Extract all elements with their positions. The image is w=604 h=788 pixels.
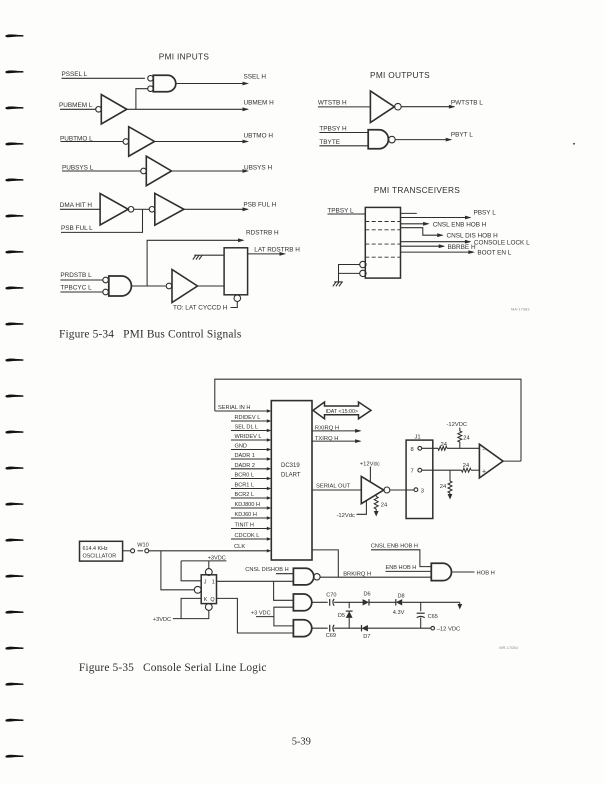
J1 pin 7 circle	[418, 468, 422, 472]
wire RDSTRB H	[147, 240, 243, 286]
diode D6	[363, 599, 369, 605]
capacitor C70	[329, 599, 331, 606]
svg-text:PWTSTB L: PWTSTB L	[451, 99, 483, 106]
wire preset to +3VDC	[208, 561, 210, 569]
wire clear to +3VDC rail	[181, 610, 209, 618]
svg-text:UBTMO H: UBTMO H	[244, 133, 274, 140]
supply arrow end of rail	[459, 602, 461, 604]
wire stub top right	[401, 212, 417, 214]
inverter U5 output bubble	[128, 207, 134, 213]
resistor 24 to ground	[448, 481, 452, 493]
wire CNSL ENB HOB H	[401, 223, 429, 225]
svg-text:24: 24	[463, 463, 470, 469]
wire Q output to bottom gate	[217, 598, 294, 633]
transceiver section dashed dividers	[365, 221, 400, 223]
wire U16 bottom input from +3 VDC	[274, 607, 294, 626]
inverter input bubble	[141, 168, 147, 174]
svg-text:CDCOK L: CDCOK L	[235, 533, 260, 539]
oscillator Y1 box	[80, 541, 123, 561]
and-gate U15 (HOB)	[431, 563, 451, 580]
and-gate U17 (bottom)	[293, 620, 311, 637]
wire CNSL DIS HOB H	[401, 228, 443, 236]
inverter U9 (PWTSTB)	[370, 91, 394, 123]
svg-text:BOOT EN L: BOOT EN L	[477, 250, 511, 257]
nand output bubble	[314, 574, 320, 580]
wire PUBTMO L	[61, 141, 124, 143]
buffer U6	[155, 193, 184, 225]
wire bottom rail with C69 D7	[312, 627, 328, 629]
transceiver E2 box	[365, 207, 400, 278]
svg-text:+3 VDC: +3 VDC	[251, 611, 271, 617]
svg-text:-12VDC: -12VDC	[447, 422, 468, 428]
wire op-amp output to feedback	[503, 460, 521, 462]
bus IDAT <15:00> double arrow	[313, 402, 371, 419]
and-gate input bubble	[103, 289, 109, 295]
wire CONSOLE LOCK L	[401, 241, 470, 243]
inverter U2 (UBMEM)	[101, 95, 127, 125]
svg-text:4.3V: 4.3V	[393, 610, 405, 616]
buffer input bubble	[149, 207, 155, 213]
connector J1 box	[406, 440, 433, 518]
svg-text:PUBSYS L: PUBSYS L	[62, 165, 94, 172]
inverter output bubble	[395, 103, 402, 110]
ground at latch input	[203, 254, 224, 256]
wire TO: LAT CYCCD H	[231, 302, 238, 308]
latch enable bubble	[234, 295, 241, 302]
wire BRKIRQ H	[320, 576, 431, 578]
svg-text:C65: C65	[428, 614, 438, 620]
svg-text:D8: D8	[398, 593, 405, 599]
wire junction down to ground resistor	[449, 470, 451, 481]
svg-text:1: 1	[212, 580, 215, 586]
svg-text:D7: D7	[363, 634, 370, 640]
svg-text:PSB FUL L: PSB FUL L	[61, 225, 93, 232]
svg-text:PRDSTB L: PRDSTB L	[60, 272, 92, 279]
svg-text:BCR1 L: BCR1 L	[235, 483, 255, 489]
wire PRDSTB L	[60, 279, 102, 281]
wire PUBSYS L	[62, 170, 141, 172]
flip-flop E3 box	[201, 575, 216, 604]
wire TPBCYC L	[60, 291, 102, 293]
ground for transceiver enables	[333, 282, 343, 286]
binder hole marks (left margin)	[6, 35, 23, 758]
svg-text:TPBSY H: TPBSY H	[319, 125, 347, 132]
svg-text:SSEL H: SSEL H	[244, 74, 267, 81]
wire PSB FUL L to junction	[61, 209, 143, 232]
wire LAT RDSTRB H	[248, 253, 285, 255]
op-amp U13 receiver	[479, 444, 503, 478]
wire CNSL ENB HOB H to gate	[371, 550, 431, 567]
J1 pin 3 circle	[414, 488, 418, 492]
wire HOB H output	[452, 571, 475, 573]
svg-text:614.4 KHz: 614.4 KHz	[83, 546, 108, 552]
driver U12 triangle	[361, 476, 383, 503]
wire UBSYS H output	[172, 170, 248, 172]
svg-text:24: 24	[441, 442, 448, 448]
wire serial feedback loop (op-amp to SERIAL IN)	[215, 379, 521, 461]
resistor 24 pull to -12VDC	[458, 431, 462, 442]
svg-text:8: 8	[411, 447, 414, 453]
svg-text:5-39: 5-39	[292, 737, 311, 748]
supply arrow below resistor	[449, 493, 451, 495]
svg-text:PMI INPUTS: PMI INPUTS	[159, 52, 210, 62]
wire pin 7 to op-amp	[422, 469, 462, 471]
jumper W10 pin 1	[131, 549, 135, 553]
svg-text:MA-17983: MA-17983	[511, 307, 530, 312]
svg-text:PBSY L: PBSY L	[474, 210, 497, 217]
flip-flop clock bubble	[194, 586, 201, 593]
buffer U8	[172, 270, 198, 303]
wire CNSL DISHOB H	[276, 573, 293, 575]
svg-text:24: 24	[440, 484, 447, 490]
wire K input tied high	[173, 598, 201, 618]
wire SERIAL OUT	[312, 489, 361, 491]
wire U16 top input from BRKIRQ net	[274, 581, 294, 600]
svg-text:LAT RDSTRB H: LAT RDSTRB H	[254, 247, 300, 254]
wire buffer output to latch	[198, 285, 225, 287]
wire PBSY L	[401, 217, 471, 219]
svg-text:UBMEM H: UBMEM H	[244, 100, 275, 107]
svg-text:C70: C70	[326, 592, 336, 598]
resistor 24 series pin8	[438, 446, 447, 450]
svg-text:KDJ800 H: KDJ800 H	[235, 502, 261, 508]
svg-text:TO: LAT CYCCD H: TO: LAT CYCCD H	[173, 305, 228, 312]
wire BOOT EN L	[401, 251, 474, 253]
svg-text:WTSTB H: WTSTB H	[318, 100, 347, 107]
svg-text:24: 24	[463, 436, 470, 442]
svg-text:Figure 5-34 PMI Bus Control: Figure 5-34 PMI Bus Control Signals	[59, 328, 242, 340]
buffer input bubble	[166, 283, 172, 289]
driver output bubble	[384, 487, 390, 493]
svg-text:PUBMEM L: PUBMEM L	[59, 102, 93, 109]
svg-text:KDJ60 H: KDJ60 H	[235, 512, 257, 518]
latch E1 box	[224, 248, 248, 295]
svg-text:D6: D6	[364, 592, 371, 598]
svg-text:GND: GND	[235, 444, 247, 450]
stray mark	[573, 143, 575, 145]
wire +12Vdc to driver	[369, 467, 371, 482]
wire DLART BRK output stub	[312, 550, 338, 577]
enable bubble 1	[360, 261, 366, 267]
svg-text:PMI TRANSCEIVERS: PMI TRANSCEIVERS	[374, 185, 460, 195]
svg-text:24: 24	[381, 503, 388, 509]
svg-text:J: J	[204, 580, 207, 586]
svg-text:7: 7	[411, 469, 414, 475]
svg-text:–12 VDC: –12 VDC	[437, 626, 461, 632]
svg-text:PBYT L: PBYT L	[451, 132, 473, 139]
svg-text:+: +	[482, 469, 486, 476]
inverter input bubble	[123, 139, 129, 145]
wire +3VDC rail	[181, 560, 226, 562]
and-gate input bubble 1	[148, 76, 154, 82]
diode D7	[362, 625, 368, 631]
wire CLK to DLART	[149, 550, 269, 552]
jumper W10 dash	[138, 550, 144, 552]
wire between inverter and buffer	[134, 208, 149, 210]
wire WTSTB H	[318, 106, 371, 108]
wire W10 junction down to flip-flop clock	[161, 551, 194, 590]
wire PUBMEM L	[60, 108, 96, 110]
and-gate input bubble 2	[148, 86, 154, 92]
inverter input bubble	[96, 107, 102, 113]
wire pin 8 to op-amp	[422, 447, 438, 449]
svg-text:RDIDEV L: RDIDEV L	[235, 415, 261, 421]
and-gate U1 (SSEL)	[153, 75, 176, 91]
svg-text:W10: W10	[137, 542, 149, 548]
and-gate input bubble	[103, 277, 109, 283]
svg-text:TPBCYC L: TPBCYC L	[60, 285, 92, 292]
wire flip-flop out to nand	[217, 580, 294, 582]
wire junction to and-gate second input	[136, 89, 148, 110]
svg-text:BCR2 L: BCR2 L	[235, 492, 255, 498]
J1 pin 8 circle	[418, 446, 422, 450]
svg-text:DLART: DLART	[281, 473, 301, 479]
wire driver to J1 pin 3	[390, 489, 414, 491]
terminal -12 VDC	[431, 626, 435, 630]
inverter U4 (UBSYS)	[146, 156, 171, 186]
wire J input tied high	[181, 561, 201, 581]
nand-gate U10 (PBYT)	[368, 130, 388, 149]
wire DMA HIT H	[60, 208, 100, 210]
enable bubble 2	[360, 270, 366, 276]
svg-text:C69: C69	[326, 633, 336, 639]
svg-text:IDAT <15:00>: IDAT <15:00>	[326, 409, 359, 415]
wire TBYTE	[319, 145, 368, 147]
svg-text:DADR 2: DADR 2	[235, 463, 256, 469]
svg-text:SERIAL IN H: SERIAL IN H	[218, 405, 250, 411]
svg-text:RDSTRB H: RDSTRB H	[246, 230, 279, 237]
svg-text:DMA HIT H: DMA HIT H	[60, 202, 93, 209]
wire PBYT L	[395, 139, 450, 141]
supply arrow below resistor	[375, 509, 377, 512]
wire SSEL H output	[176, 83, 248, 85]
svg-text:SERIAL OUT: SERIAL OUT	[316, 484, 351, 490]
svg-text:WRIDEV L: WRIDEV L	[235, 434, 262, 440]
svg-text:CNSL ENB HOB H: CNSL ENB HOB H	[371, 543, 418, 549]
capacitor C65 shunt	[420, 602, 422, 611]
svg-text:BRKIRQ H: BRKIRQ H	[343, 571, 371, 577]
wire TPBSY L	[328, 213, 366, 215]
svg-text:ENB HOB H: ENB HOB H	[386, 565, 417, 571]
resistor 24 series pin7	[462, 468, 472, 472]
resistor 24 below driver	[375, 495, 377, 497]
svg-text:OSCILLATOR: OSCILLATOR	[83, 554, 117, 560]
flip-flop preset bubble	[205, 569, 212, 576]
svg-text:Q: Q	[210, 597, 214, 603]
svg-text:-12Vdc: -12Vdc	[337, 513, 355, 519]
wire BBRBE H	[401, 245, 444, 247]
and-gate U7 (PRDSTB/TPBCYC)	[109, 276, 132, 296]
svg-text:HOB H: HOB H	[477, 570, 495, 576]
svg-text:BBRBE H: BBRBE H	[448, 244, 476, 251]
wire PSSEL L to gate	[62, 77, 145, 79]
svg-text:TBYTE: TBYTE	[319, 139, 340, 146]
wire top rail segments with C70 D6 D8	[312, 601, 328, 603]
wire +3 VDC to junction	[256, 616, 274, 618]
wire ENB HOB H	[386, 570, 432, 572]
svg-text:PSSEL L: PSSEL L	[62, 71, 88, 78]
svg-text:TINIT H: TINIT H	[235, 523, 254, 529]
uart U11 DC319 DLART box	[271, 401, 312, 560]
svg-text:BCR0 L: BCR0 L	[235, 473, 255, 479]
inverter U3 (UBTMO)	[129, 127, 155, 157]
svg-text:PSB FUL H: PSB FUL H	[243, 202, 276, 209]
wire -12Vdc to driver	[357, 501, 367, 515]
wire PWTSTB L	[401, 106, 454, 108]
svg-text:MR-17084: MR-17084	[499, 645, 518, 650]
jumper W10 pin 2	[145, 549, 149, 553]
svg-text:CNSL DISHOB H: CNSL DISHOB H	[245, 567, 288, 573]
svg-text:CLK: CLK	[234, 544, 245, 550]
wire junction up to -12VDC pull	[459, 442, 461, 448]
svg-text:CNSL ENB HOB H: CNSL ENB HOB H	[433, 221, 487, 228]
wire UBTMO H output	[155, 141, 248, 143]
diode D5 shunt	[348, 602, 350, 608]
nand output bubble	[389, 136, 396, 143]
wire PSB FUL H output	[184, 208, 248, 210]
svg-text:+3VDC: +3VDC	[153, 617, 171, 623]
wire enables to ground	[339, 265, 360, 282]
wire UBMEM H output	[127, 108, 248, 110]
svg-text:DADR 1: DADR 1	[235, 453, 256, 459]
svg-text:UBSYS H: UBSYS H	[244, 165, 272, 172]
capacitor C69	[329, 625, 331, 632]
and-gate U16 (middle)	[293, 594, 311, 611]
wire oscillator to W10	[123, 550, 131, 552]
wire TPBSY H	[319, 132, 368, 134]
wire and-gate to buffer	[131, 285, 166, 287]
svg-text:D5: D5	[338, 613, 345, 619]
svg-text:DC319: DC319	[281, 463, 300, 469]
inverter U5 (DMA HIT)	[100, 194, 128, 226]
svg-text:PMI OUTPUTS: PMI OUTPUTS	[370, 70, 430, 80]
diode D8 zener 4.3V	[396, 599, 402, 605]
svg-text:K: K	[204, 597, 208, 603]
svg-text:Figure 5-35 Console Serial L: Figure 5-35 Console Serial Line Logic	[79, 662, 267, 674]
svg-text:CONSOLE LOCK L: CONSOLE LOCK L	[474, 239, 530, 246]
svg-text:SEL DL L: SEL DL L	[235, 425, 259, 431]
flip-flop clear bubble	[205, 604, 212, 611]
svg-text:3: 3	[421, 488, 424, 494]
nand-gate U14 (BRKIRQ)	[293, 568, 313, 585]
svg-text:+12Vdc: +12Vdc	[360, 461, 380, 467]
